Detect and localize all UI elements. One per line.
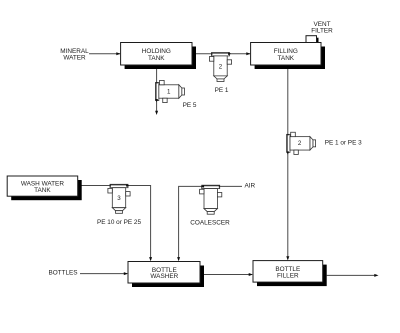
svg-text:COALESCER: COALESCER bbox=[190, 220, 230, 227]
svg-text:PE 1 or PE 3: PE 1 or PE 3 bbox=[325, 140, 362, 147]
svg-text:1: 1 bbox=[167, 89, 171, 96]
svg-text:AIR: AIR bbox=[244, 183, 255, 190]
svg-text:FILTER: FILTER bbox=[311, 28, 333, 35]
svg-text:PE 10 or PE 25: PE 10 or PE 25 bbox=[97, 219, 141, 226]
svg-text:PE 1: PE 1 bbox=[215, 87, 229, 94]
svg-text:PE 5: PE 5 bbox=[183, 102, 197, 109]
svg-text:2: 2 bbox=[219, 64, 223, 71]
svg-text:TANK: TANK bbox=[278, 55, 295, 62]
svg-text:WASHER: WASHER bbox=[150, 273, 178, 280]
svg-text:TANK: TANK bbox=[34, 187, 51, 194]
svg-text:TANK: TANK bbox=[148, 55, 165, 62]
svg-text:3: 3 bbox=[117, 195, 121, 202]
svg-text:2: 2 bbox=[298, 140, 302, 147]
svg-text:WATER: WATER bbox=[63, 55, 86, 62]
svg-text:BOTTLES: BOTTLES bbox=[48, 270, 77, 277]
svg-text:FILLER: FILLER bbox=[277, 273, 299, 280]
